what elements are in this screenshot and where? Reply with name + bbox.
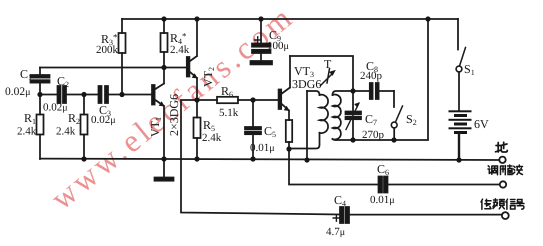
wire VT3 collector to tank top: [290, 56, 353, 112]
junction ground primary winding: [304, 157, 309, 162]
transformer T primary winding: [289, 91, 328, 149]
junction ground VT1 emitter: [161, 156, 166, 161]
svg-text:200k: 200k: [96, 44, 119, 56]
battery 6V: [449, 110, 472, 160]
junction S2 bottom: [391, 137, 396, 142]
transistor VT2: [187, 19, 197, 100]
svg-text:6V: 6V: [474, 117, 489, 131]
core adjust arrow: [321, 69, 336, 86]
svg-text:0.01μ: 0.01μ: [250, 142, 275, 154]
svg-text:2.4k: 2.4k: [56, 126, 76, 138]
capacitor C3: [99, 86, 153, 103]
transistor VT3: [279, 56, 290, 120]
capacitor C1: [31, 68, 50, 95]
wire VT3 base: [253, 99, 279, 101]
svg-text:0.02μ: 0.02μ: [5, 86, 31, 98]
resistor R2 2.4k: [81, 95, 88, 160]
svg-text:0.01μ: 0.01μ: [370, 194, 395, 206]
junction rail tank feed: [425, 16, 430, 21]
junction ground battery: [456, 157, 461, 162]
junction C2 R2 node: [81, 92, 86, 97]
junction VT3 emitter resistor node: [286, 146, 291, 151]
junction rail R4: [161, 16, 166, 21]
label Tiao Fu Bo (AM wave): [488, 165, 523, 175]
wire feedback to low-frequency input: [181, 100, 340, 215]
svg-text:2.4k: 2.4k: [170, 44, 190, 56]
wire primary top to ground: [306, 91, 308, 160]
resistor VT3 emitter: [286, 120, 292, 149]
variable capacitor C7 270p: [346, 103, 362, 140]
junction rail C9: [258, 16, 263, 21]
switch S2: [391, 91, 402, 140]
capacitor C4 4.7u: [333, 207, 501, 223]
capacitor C9 100u: [251, 19, 273, 64]
svg-text:T: T: [324, 57, 332, 71]
resistor R1 2.4k: [37, 95, 44, 160]
terminal ground: [499, 157, 505, 163]
wire ground rail: [40, 159, 499, 160]
svg-text:2.4k: 2.4k: [17, 126, 37, 138]
junction C7 bottom: [350, 137, 355, 142]
svg-text:3DG6: 3DG6: [292, 77, 321, 91]
svg-text:2×3DG6: 2×3DG6: [167, 94, 181, 136]
wire top supply rail: [122, 18, 458, 20]
transformer T secondary winding: [333, 91, 354, 140]
junction tank top node: [350, 88, 355, 93]
svg-text:2.4k: 2.4k: [202, 132, 222, 144]
junction VT2 emitter node: [194, 97, 199, 102]
junction VT1 collector node: [161, 65, 166, 70]
resistor R4 2.4k: [161, 19, 168, 68]
resistor R6 5.1k: [197, 97, 253, 103]
resistor R3 200k: [119, 19, 126, 95]
junction VT1 base node: [119, 92, 124, 97]
svg-text:4.7μ: 4.7μ: [326, 226, 345, 238]
capacitor C5: [245, 100, 261, 159]
Chinese labels drawn as strokes: [481, 142, 524, 209]
switch S1: [456, 19, 465, 110]
capacitor C6 0.01u: [379, 177, 500, 193]
svg-text:270p: 270p: [362, 129, 385, 141]
junction ground C5: [250, 156, 255, 161]
wire C1 top to VT2 base: [40, 67, 187, 69]
transistor VT1: [152, 68, 164, 160]
ground symbol under VT1 emitter: [155, 159, 174, 181]
wire emitter node to AM output: [289, 149, 378, 185]
junction ground R2: [81, 156, 86, 161]
svg-text:240p: 240p: [360, 70, 383, 82]
junction ground R5: [194, 156, 199, 161]
label Di Pin Xin Hao (low-frequency signal): [481, 199, 524, 209]
terminal AM wave: [500, 181, 506, 187]
junction rail VT2 collector: [194, 16, 199, 21]
label Di (ground): [496, 142, 508, 152]
svg-text:100μ: 100μ: [267, 40, 289, 52]
resistor R5 2.4k: [194, 100, 201, 159]
watermark www.elecfans.com: [44, 0, 301, 216]
wire tank bottom: [336, 19, 428, 140]
svg-text:0.02μ: 0.02μ: [91, 114, 116, 126]
capacitor C8 240p: [353, 83, 394, 99]
svg-text:5.1k: 5.1k: [219, 107, 239, 119]
capacitor C2: [40, 86, 99, 103]
junction C1 R1 node: [37, 92, 42, 97]
svg-text:0.02μ: 0.02μ: [43, 102, 68, 114]
junction VT3 base node: [250, 97, 255, 102]
terminal low-frequency signal: [502, 212, 509, 219]
